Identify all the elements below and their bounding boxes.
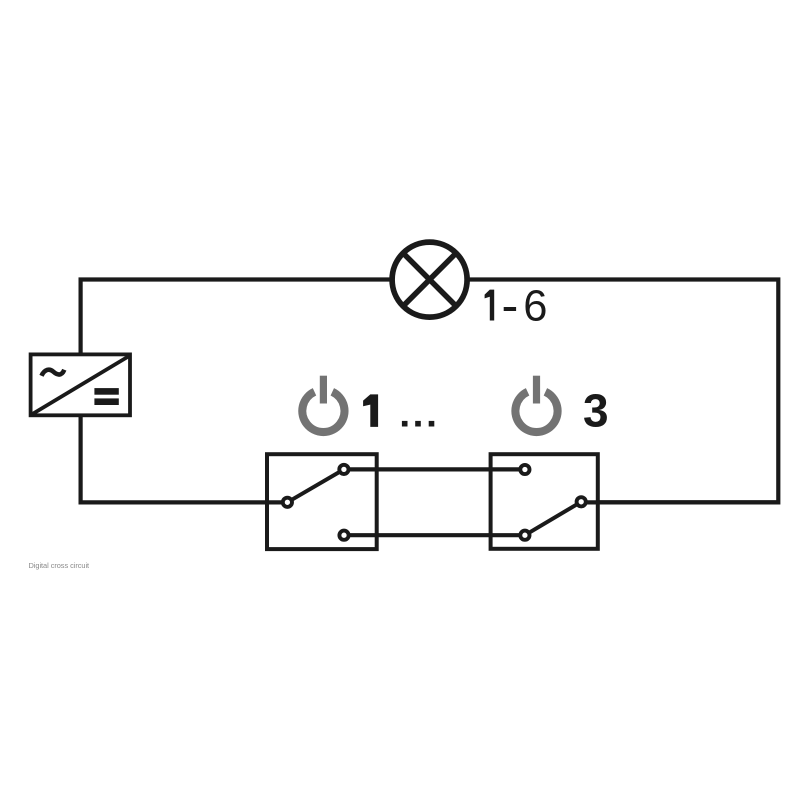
- svg-text:6: 6: [523, 283, 547, 331]
- svg-text:Digital cross circuit: Digital cross circuit: [29, 561, 90, 570]
- svg-text:3: 3: [583, 384, 609, 436]
